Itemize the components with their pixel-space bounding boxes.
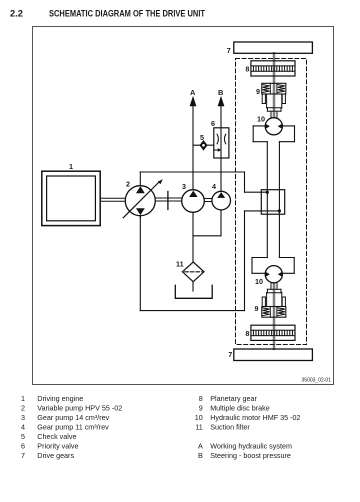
svg-text:Priority valve: Priority valve	[37, 442, 78, 451]
port A arrow	[190, 96, 197, 106]
svg-text:2: 2	[126, 180, 130, 189]
svg-text:Suction filter: Suction filter	[210, 423, 250, 432]
wire: loop right bottom rise to junction	[245, 211, 280, 311]
svg-text:Driving engine: Driving engine	[37, 394, 83, 403]
legend right column text	[210, 394, 300, 460]
planetary gear 8 (bottom)	[251, 325, 295, 340]
shaft pump3 to pump4 (double line)	[204, 199, 212, 202]
wire: pump4 suction down and join	[193, 210, 221, 236]
svg-text:11: 11	[176, 260, 184, 269]
svg-text:Hydraulic motor HMF 35 -02: Hydraulic motor HMF 35 -02	[210, 413, 300, 422]
svg-text:7: 7	[21, 451, 25, 460]
svg-text:A: A	[190, 88, 196, 97]
svg-text:3: 3	[21, 413, 25, 422]
svg-text:5: 5	[200, 133, 204, 142]
svg-text:2: 2	[21, 404, 25, 413]
shaft engine to pump 2 (double line)	[100, 198, 125, 201]
suction filter 11	[182, 262, 204, 282]
svg-text:10: 10	[255, 277, 263, 286]
svg-text:5: 5	[21, 432, 25, 441]
engine box 1	[42, 171, 100, 225]
legend left column numbers	[21, 394, 25, 460]
svg-text:3: 3	[182, 182, 186, 191]
drive shaft (bottom, grey)	[273, 283, 276, 349]
svg-text:1: 1	[21, 394, 25, 403]
svg-text:1: 1	[69, 162, 73, 171]
hydraulic motor U10 (bottom)	[265, 266, 282, 283]
svg-text:8: 8	[199, 394, 203, 403]
svg-text:8: 8	[245, 329, 249, 338]
port B arrow	[218, 96, 225, 106]
svg-text:35003_02-01: 35003_02-01	[302, 378, 332, 384]
wire: loop right top drop to junction	[245, 172, 268, 192]
pump 4 gear pump	[212, 191, 231, 210]
wheel 7 (bottom)	[234, 349, 313, 361]
junction box on motor lines	[261, 190, 284, 215]
svg-text:B: B	[198, 451, 203, 460]
motor mount bottom (inverted T)	[252, 258, 294, 274]
wire: motor line L2 (right vertical)	[278, 142, 280, 258]
priority valve 6	[214, 128, 229, 158]
wire: pump3 suction down	[192, 212, 194, 262]
wire: pump4 to port B through valve 6	[220, 106, 222, 192]
pump 3 gear pump	[182, 190, 205, 213]
legend left column text	[37, 394, 122, 460]
junction dot on L1	[266, 191, 269, 194]
diagram border frame	[33, 27, 334, 385]
svg-text:4: 4	[21, 423, 25, 432]
svg-text:Working hydraulic system: Working hydraulic system	[210, 442, 292, 451]
svg-text:B: B	[218, 88, 223, 97]
dashed axle housing box	[236, 59, 307, 345]
svg-text:4: 4	[212, 182, 216, 191]
check valve 5	[200, 141, 206, 149]
svg-text:11: 11	[195, 423, 202, 432]
svg-text:Check valve: Check valve	[37, 432, 76, 441]
svg-text:Gear pump 11 cm³/rev: Gear pump 11 cm³/rev	[37, 423, 109, 432]
svg-text:10: 10	[257, 115, 265, 124]
hydraulic motor U10 (top)	[265, 118, 282, 135]
svg-text:6: 6	[211, 119, 215, 128]
svg-text:Planetary gear: Planetary gear	[210, 394, 257, 403]
svg-text:9: 9	[199, 404, 203, 413]
svg-text:7: 7	[228, 350, 232, 359]
wire: pump loop top edge	[140, 172, 244, 186]
junction dot on L2	[278, 209, 281, 212]
svg-text:SCHEMATIC DIAGRAM OF THE DRIVE: SCHEMATIC DIAGRAM OF THE DRIVE UNIT	[49, 9, 205, 19]
svg-text:7: 7	[227, 46, 231, 55]
svg-text:9: 9	[255, 304, 259, 313]
svg-text:9: 9	[256, 87, 260, 96]
svg-text:Drive gears: Drive gears	[37, 451, 74, 460]
drive shaft (top, grey)	[273, 53, 276, 118]
svg-text:Gear pump 14 cm³/rev: Gear pump 14 cm³/rev	[37, 413, 109, 422]
shaft pump2 to pump3 (double line)	[155, 198, 182, 201]
wire: motor line L1 (left vertical)	[266, 142, 268, 258]
legend right column numbers	[195, 394, 203, 460]
pump 2 variable (HPV)	[123, 179, 163, 218]
wire: A line to check valve to valve 6	[193, 144, 214, 146]
multiple disc brake 9 (top)	[262, 83, 286, 117]
svg-text:6: 6	[21, 442, 25, 451]
svg-text:8: 8	[245, 65, 249, 74]
wire: pump3 to port A	[192, 106, 194, 190]
svg-text:Steering - boost pressure: Steering - boost pressure	[210, 451, 291, 460]
wire: filter to tank stub	[192, 282, 194, 291]
planetary gear 8 (top)	[251, 61, 295, 76]
motor mount top (T shape)	[253, 126, 294, 142]
svg-text:2.2: 2.2	[10, 9, 23, 19]
multiple disc brake 9 (bottom)	[262, 283, 286, 317]
tank symbol	[175, 285, 212, 298]
wheel 7 (top)	[234, 42, 313, 53]
shaft coupling tick	[167, 192, 169, 210]
svg-text:A: A	[198, 442, 203, 451]
svg-text:10: 10	[195, 413, 203, 422]
wire: pump loop bottom edge	[140, 216, 244, 311]
svg-text:Variable pump HPV 55 -02: Variable pump HPV 55 -02	[37, 404, 122, 413]
svg-text:Multiple disc brake: Multiple disc brake	[210, 404, 270, 413]
